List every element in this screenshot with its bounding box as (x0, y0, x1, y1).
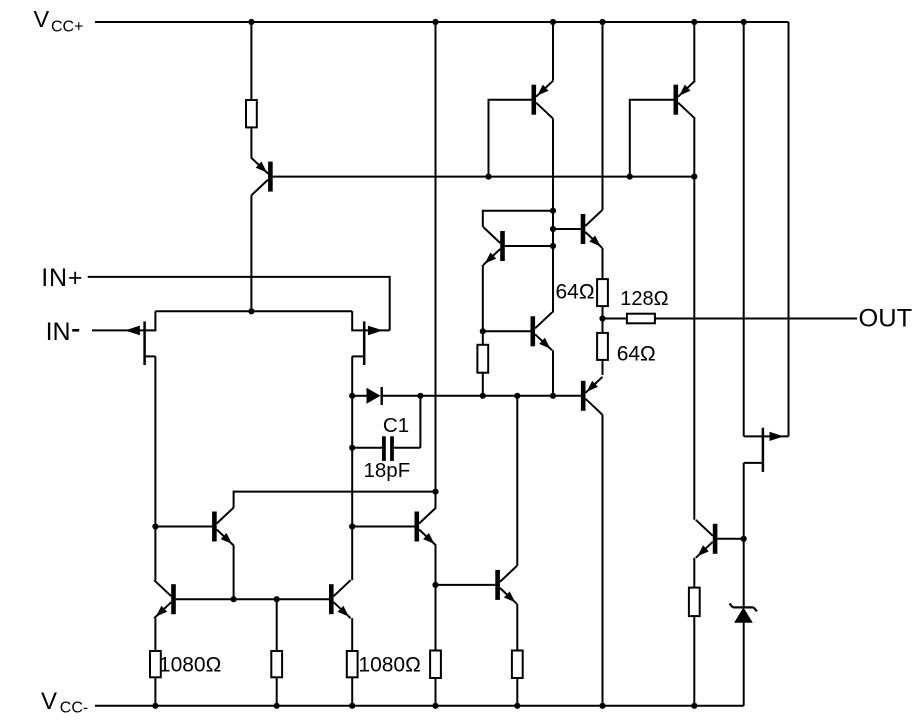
svg-text:OUT: OUT (859, 304, 913, 332)
wire J1 source down to Q6 collector (154, 356, 156, 580)
junction Q6o base tap (550, 226, 556, 232)
label 128ohm (620, 288, 668, 310)
wire JFET common-source line (155, 310, 352, 312)
junction D1 anode / J2 source rail (349, 393, 355, 399)
wire IN+ lead to J2 gate (88, 277, 390, 331)
wire R5 to OUT (655, 318, 857, 320)
wire VCC+ down to J3 drain (743, 22, 745, 436)
wire Q8 base lead (352, 526, 414, 528)
wire D2 anode to VCC- rail corner (743, 623, 745, 706)
resistor R7 (271, 651, 282, 677)
wire R7 to VCC- (276, 677, 278, 706)
svg-text:IN+: IN+ (41, 264, 83, 292)
wire Q10 collector up to Q3 collector (0, 0, 1, 1)
transistor Q5 (NPN cascode left) (212, 508, 234, 546)
wire VCC+ to Q3 emitter (693, 22, 695, 81)
wire R8 to VCC- (351, 677, 353, 706)
junction R2 / D1 line (480, 393, 486, 399)
transistor Q10 (NPN right) (696, 520, 718, 558)
transistor J3 (JFET bias) (744, 428, 789, 472)
svg-text:64Ω: 64Ω (556, 281, 595, 304)
junction C1 left plate / J2 source rail (349, 445, 355, 451)
junction Q1 collector / tail node (248, 308, 254, 314)
svg-text:1080Ω: 1080Ω (159, 654, 221, 677)
wire bias line Q1 base to mirror bases (273, 176, 695, 178)
wire VCC- bottom rail (95, 705, 744, 707)
resistor R6 (1080 ohm left) (150, 651, 161, 677)
transistor Q3 (PNP mirror right, diode connected) (674, 81, 696, 119)
junction J1 source / Q5 base (152, 523, 158, 529)
svg-text:C1: C1 (383, 414, 409, 437)
transistor Q1 (PNP current source) (251, 158, 273, 196)
wire R3 to output node to R4 (602, 306, 604, 333)
junction Q3 base / bias line (627, 174, 633, 180)
resistor R1 (246, 100, 257, 127)
junction output node (599, 315, 605, 321)
junction R10 / VCC- rail (514, 703, 520, 709)
transistor Q6o (NPN output upper) (581, 210, 603, 248)
wire mirror base to R7 (276, 599, 278, 651)
label C1 (383, 414, 409, 437)
svg-text:V: V (34, 6, 50, 32)
resistor R10 (512, 651, 523, 679)
svg-text:CC+: CC+ (51, 18, 83, 35)
wire Q5m emitter to D1 line (552, 350, 554, 396)
wire Q10 emitter to R11 (693, 558, 695, 588)
junction VCC+ / x435 rail (432, 19, 438, 25)
wire Q6o emitter to R3 (602, 248, 604, 279)
junction J2 source / Q8 base (349, 523, 355, 529)
wire R10 to VCC- (516, 678, 518, 706)
wire J3 source down to zener (743, 463, 745, 608)
label IN- (46, 318, 80, 346)
junction Q7o collector / VCC- rail (599, 703, 605, 709)
label 1080ohm right (358, 654, 420, 677)
resistor R11 (689, 588, 700, 617)
label OUT (859, 304, 913, 332)
junction R8 / VCC- rail (349, 703, 355, 709)
wire Q9 base lead (436, 584, 496, 586)
junction VCC+ / Q3 emitter (691, 19, 697, 25)
label IN+ (41, 264, 83, 292)
svg-text:CC-: CC- (60, 700, 88, 717)
junction R7 / VCC- rail (274, 703, 280, 709)
wire R11 to VCC- (693, 616, 695, 706)
diode D1 (352, 387, 581, 405)
capacitor C1 (352, 396, 420, 461)
junction VCC+/R1 branch (248, 19, 254, 25)
wire Q4 collector loop (483, 211, 553, 227)
wire Q5 emitter down to mirror base line (233, 546, 235, 600)
junction Q9 collector / D1 line (514, 393, 520, 399)
wire Q5m base lead (483, 330, 531, 332)
wire R9 to VCC- (435, 678, 437, 706)
wire Q2 base to bias line (489, 100, 532, 177)
label VCC- (41, 688, 88, 717)
wire output node to R5 (603, 318, 627, 320)
wire VCC+ to Q2 emitter (552, 22, 554, 81)
transistor Q7 (NPN mirror right) (329, 580, 351, 618)
svg-text:1080Ω: 1080Ω (358, 654, 420, 677)
transistor Q4 (NPN diode-connected) (483, 227, 505, 265)
wire Q4 emitter to R2 (482, 265, 484, 345)
wire Q8 emitter to R9 (435, 546, 437, 651)
junction VCC+ / J3 drain column (741, 19, 747, 25)
junction R7 / mirror base line (274, 596, 280, 602)
junction Q4 collector link (550, 208, 556, 214)
wire Q4 base to middle column (505, 245, 553, 247)
transistor Q5m (NPN level shifter) (531, 312, 553, 350)
wire Q6o base lead (553, 228, 581, 230)
junction VCC+ / Q2 emitter (550, 19, 556, 25)
label 1080ohm left (159, 654, 221, 677)
transistor J1 (p-JFET, inverting input) (125, 311, 155, 365)
wire IN- lead to J1 gate (92, 329, 145, 331)
label 18pF (364, 459, 411, 482)
svg-text:64Ω: 64Ω (617, 343, 656, 366)
zener diode D2 (730, 604, 757, 623)
wire Q3 collector down right column (693, 119, 695, 520)
wire R2 to D1 line (482, 373, 484, 396)
transistor Q2 (PNP mirror left) (532, 81, 554, 119)
transistor Q8 (NPN cascode right) (415, 508, 437, 546)
junction Q3 collector / bias line (691, 174, 697, 180)
wire Q7 emitter to R8 (351, 618, 353, 651)
wire Q9 collector up to D1 line (516, 396, 518, 566)
wire Q9 emitter to R10 (516, 604, 518, 651)
junction Q4 base tap (550, 243, 556, 249)
junction J3 source / Q10 base (741, 536, 747, 542)
transistor Q9 (NPN) (495, 566, 517, 604)
resistor R9 (430, 651, 441, 679)
wire VCC+ to R1 (250, 22, 252, 100)
wire Q3 base to bias line (630, 100, 674, 177)
junction Q5 collector line / x435 rail (432, 489, 438, 495)
svg-text:18pF: 18pF (364, 459, 411, 482)
junction Q5 emitter / mirror base line (231, 596, 237, 602)
junction Q4 emitter / Q5m base (480, 328, 486, 334)
wire R4 to Q7o emitter (602, 360, 604, 375)
label 64ohm upper (556, 281, 595, 304)
wire VCC+ top rail (95, 21, 789, 23)
wire Q2 collector down middle column (552, 119, 554, 313)
resistor R5 (128 ohm) (627, 314, 655, 324)
junction Q8 emitter / Q9 base (432, 582, 438, 588)
wire R6 to VCC- (154, 677, 156, 706)
wire Q5 base lead (155, 526, 212, 528)
label 64ohm lower (617, 343, 656, 366)
wire J2 source down to Q7 collector (351, 356, 353, 580)
junction Q2 base / bias line (485, 174, 491, 180)
wire Q6 emitter to R6 (154, 618, 156, 651)
junction R9 / VCC- rail (432, 703, 438, 709)
wire Q10 base lead (717, 538, 743, 540)
wire Q5 collector link to x435 rail (234, 492, 436, 508)
wire right-edge vertical from VCC+ rail down to J3 gate (788, 22, 790, 436)
svg-text:V: V (41, 688, 57, 715)
wire Q7o collector to VCC- (602, 415, 604, 706)
resistor R3 (64 ohm upper) (597, 279, 608, 306)
svg-text:128Ω: 128Ω (620, 288, 668, 310)
transistor Q7o (PNP output lower) (581, 377, 603, 415)
wire mirror base line Q6 to Q7 (176, 598, 329, 600)
resistor R2 (477, 345, 488, 373)
svg-text:IN: IN (46, 318, 71, 346)
wire R1 to Q1 emitter (250, 127, 252, 157)
transistor Q6 (NPN mirror left) (154, 580, 176, 618)
resistor R4 (64 ohm lower) (597, 333, 608, 360)
wire VCC+ to Q6o collector (602, 22, 604, 210)
junction D1 line / Q5m emitter (550, 393, 556, 399)
resistor R8 (1080 ohm right) (347, 651, 358, 677)
wire x435 rail VCC+ down to Q8 collector (435, 22, 437, 508)
junction VCC+ / Q6o collector column (599, 19, 605, 25)
junction R6 / VCC- rail (152, 703, 158, 709)
wire Q1 collector to JFET common source (250, 196, 252, 312)
junction D1 cathode / C1 lead (417, 393, 423, 399)
label VCC+ (34, 6, 84, 36)
junction R11 / VCC- rail (691, 703, 697, 709)
transistor J2 (p-JFET, non-inverting input) (352, 311, 390, 365)
